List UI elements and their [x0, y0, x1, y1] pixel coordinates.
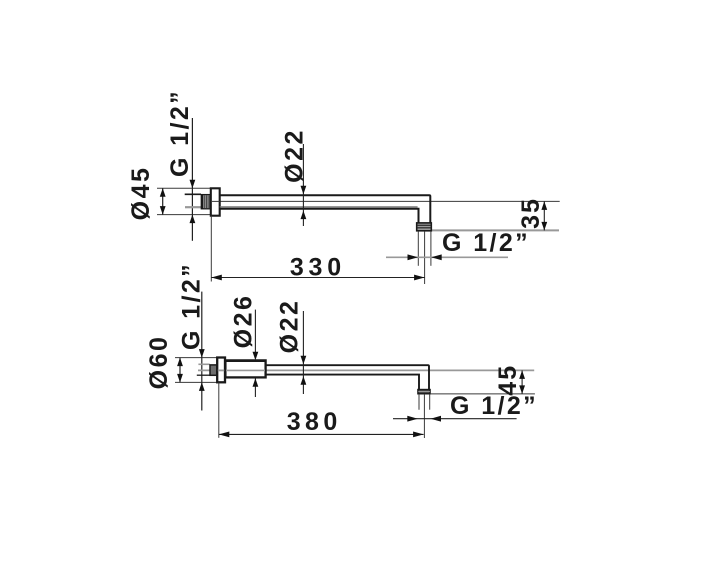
svg-text:Ø60: Ø60: [145, 335, 173, 390]
svg-text:G 1/2”: G 1/2”: [178, 262, 206, 350]
svg-text:380: 380: [287, 408, 342, 436]
svg-text:G 1/2”: G 1/2”: [166, 89, 194, 177]
svg-text:45: 45: [494, 364, 522, 396]
svg-text:Ø45: Ø45: [127, 166, 155, 221]
svg-text:Ø26: Ø26: [230, 294, 258, 349]
svg-text:Ø22: Ø22: [276, 299, 304, 354]
svg-text:330: 330: [290, 254, 346, 282]
svg-text:Ø22: Ø22: [281, 128, 309, 183]
svg-text:G 1/2”: G 1/2”: [442, 229, 530, 257]
svg-text:35: 35: [517, 197, 545, 229]
